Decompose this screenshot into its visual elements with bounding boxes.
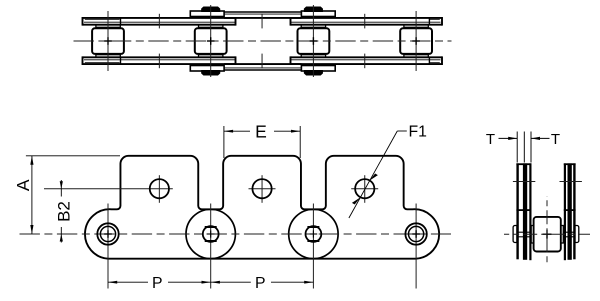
hole projection tick left — [513, 181, 535, 183]
attachment hole centerline tick 1 (bottom) — [158, 54, 160, 69]
pin head pin 2 (bottom) — [202, 71, 219, 75]
hole 3 vertical centerline — [364, 175, 366, 203]
roller pin 2 — [195, 28, 227, 54]
attachment hole centerline tick 3 (bottom) — [364, 54, 366, 69]
T arrowheads — [508, 137, 517, 140]
plate end circle around pin 2 — [186, 209, 235, 258]
T arrow line right — [531, 137, 550, 139]
outer plate end boss at pin 2 (bottom side) — [190, 66, 224, 72]
bushing flange pin 2 (top) — [199, 25, 223, 27]
P dimension line 1 — [108, 281, 313, 283]
A arrowheads — [30, 156, 33, 165]
E arrowheads — [224, 130, 233, 133]
pin head right — [575, 226, 579, 243]
A dimension extension line (top) — [26, 155, 120, 157]
bushing flange pin 4 (bottom) — [404, 55, 428, 57]
horizontal chain centerline — [74, 40, 452, 42]
roller center cross pin 1 — [104, 37, 112, 45]
svg-text:B2: B2 — [55, 201, 74, 222]
attachment link outline (tabs, valleys, ends, bottom) — [85, 156, 439, 259]
hole projection tick right — [560, 181, 582, 183]
pin 3 vertical centerline (front) — [312, 204, 314, 289]
outer plate end boss at pin 3 (top side) — [301, 11, 335, 17]
outer plate end boss at pin 2 (top side) — [190, 11, 224, 17]
riveted pin end pin 2 — [205, 227, 217, 241]
bushing flange pin 1 (bottom) — [96, 55, 120, 57]
E dimension line — [224, 130, 250, 132]
inner link plate 1-2 (bottom side) — [83, 56, 236, 65]
centerlines of front view — [20, 175, 452, 288]
attachment hole centerline tick 1 (top) — [158, 14, 160, 29]
pin head pin 3 (top) — [305, 8, 322, 12]
roller center cross pin 3 — [310, 37, 318, 45]
attachment plate left (middle lamina, sectioned) — [523, 163, 527, 259]
inner link plate 3-4 (bottom side) — [291, 56, 443, 65]
chain plate top line right — [564, 209, 576, 211]
bushing circle pin 1 — [100, 226, 115, 241]
outer link plate 2-3 span (top side) — [224, 12, 301, 18]
svg-text:P: P — [152, 275, 163, 292]
pin 3 vertical centerline — [312, 5, 314, 77]
outer plate end boss at pin 3 (bottom side) — [301, 66, 335, 72]
inner link plate 1-2 contour lines (bottom side) — [84, 57, 235, 65]
bushing boss right — [560, 226, 563, 244]
hole 3 horizontal centerline — [351, 188, 378, 190]
attachment hole 2 — [252, 179, 271, 198]
chain link plate left (inner lamina) — [529, 163, 531, 260]
inner link plate 1-2 contour lines (top side) — [84, 17, 235, 25]
E dimension extension lines — [223, 126, 225, 158]
chain plate top line left — [516, 209, 531, 211]
svg-text:T: T — [551, 131, 560, 148]
pin head pin 3 (bottom) — [305, 71, 322, 75]
roller center cross pin 4 — [412, 37, 420, 45]
T dimension extension lines — [499, 132, 550, 163]
bushing flange pin 4 (top) — [404, 25, 428, 27]
attachment hole centerline tick 2 (bottom) — [261, 54, 263, 69]
center cross pin 4 — [412, 230, 420, 238]
pin 4 vertical centerline (front) — [415, 204, 417, 289]
roller (end view) — [534, 217, 561, 252]
pin head left — [513, 226, 517, 243]
roller center cross pin 2 — [207, 37, 215, 45]
plate top cap right — [564, 163, 576, 165]
pin head pin 2 (top) — [202, 8, 219, 12]
bushing flange pin 1 (top) — [96, 25, 120, 27]
hole 2 vertical centerline — [261, 175, 263, 203]
center cross pin 2 — [207, 230, 215, 237]
roller circle pin 1 — [97, 223, 118, 244]
P arrowheads — [108, 281, 117, 284]
attachment hole 1 — [150, 179, 169, 198]
bushing flange pin 2 (bottom) — [199, 55, 223, 57]
hole 2 horizontal centerline — [249, 188, 276, 190]
A dimension line — [31, 156, 33, 234]
svg-text:A: A — [13, 179, 33, 191]
inner link plate 3-4 contour lines (bottom side) — [291, 57, 441, 65]
B2 dimension line — [60, 180, 62, 243]
attachment plate left (outer lamina) — [516, 163, 518, 259]
F1 leader arrowheads — [369, 174, 378, 181]
plate top cap left — [516, 163, 531, 165]
outer link plate 2-3 span (bottom side) — [224, 64, 301, 70]
pin 2 vertical centerline — [210, 5, 212, 77]
end view centerlines — [504, 196, 590, 266]
roller center cross (end view) — [543, 230, 552, 239]
inner link plate 3-4 (top side) — [291, 17, 443, 26]
svg-text:F1: F1 — [409, 124, 428, 141]
attachment hole 3 — [355, 179, 374, 198]
bushing circle pin 4 — [409, 226, 424, 241]
inner link plate 3-4 contour lines (top side) — [291, 17, 441, 25]
svg-text:P: P — [255, 275, 266, 292]
roller circle pin 4 — [405, 223, 426, 244]
horizontal chain centerline (front) — [20, 233, 452, 235]
svg-text:E: E — [255, 121, 267, 141]
bushing boss left — [531, 226, 534, 244]
bushing flange pin 3 (bottom) — [301, 55, 325, 57]
hole 1 horizontal centerline (extends left to B2) — [44, 188, 173, 190]
bushing flange pin 3 (top) — [301, 25, 325, 27]
center cross pin 3 — [310, 230, 318, 237]
center cross pin 1 — [104, 230, 112, 238]
pin body — [516, 232, 575, 237]
inner link plate 1-2 (top side) — [83, 17, 236, 26]
roller pin 4 — [400, 28, 432, 54]
attachment hole centerline tick 3 (top) — [364, 14, 366, 29]
pin 1 vertical centerline — [107, 11, 109, 71]
attachment plate right (outer lamina) — [573, 163, 575, 259]
plate end circle around pin 3 — [289, 209, 338, 258]
roller pin 1 — [92, 28, 124, 54]
bushing circle pin 3 — [306, 226, 322, 242]
pin 1 vertical centerline (front) — [107, 204, 109, 289]
hole 1 vertical centerline — [158, 175, 160, 203]
centerlines of top view — [74, 5, 452, 77]
T arrow line left — [499, 137, 518, 139]
bushing circle pin 2 — [203, 226, 219, 242]
pin 4 vertical centerline — [415, 11, 417, 71]
riveted pin end pin 3 — [307, 227, 319, 241]
B2 arrowheads (outside) — [60, 181, 63, 189]
chain link plate right (inner lamina) — [564, 163, 566, 260]
roller pin 3 — [298, 28, 330, 54]
svg-text:T: T — [486, 131, 495, 148]
pin 2 vertical centerline (front) — [210, 204, 212, 289]
attachment hole centerline tick 2 (top) — [261, 14, 263, 29]
attachment plate right (middle lamina, sectioned) — [568, 163, 572, 259]
F1 leader line — [349, 131, 407, 218]
